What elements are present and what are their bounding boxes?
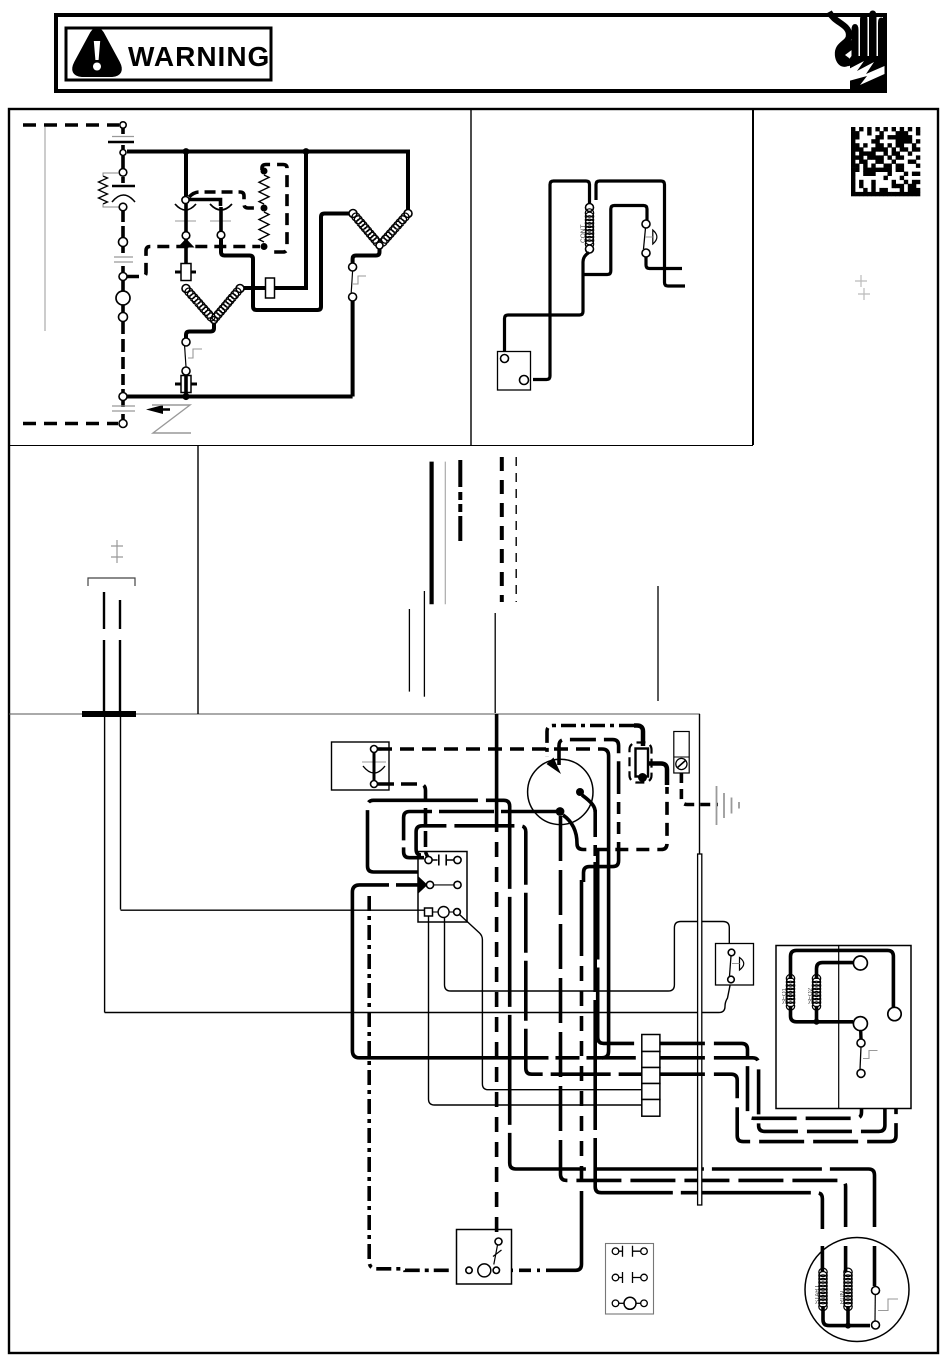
ground screw plate <box>674 732 689 774</box>
terminal below big <box>119 313 128 322</box>
wire coil2 top <box>817 963 854 979</box>
fuse F2 <box>175 271 196 274</box>
neutral bus wire <box>127 395 353 399</box>
sequencer coil1 <box>786 974 795 1010</box>
terminal heater tap <box>119 169 127 177</box>
main feed wire L1 top <box>127 152 408 210</box>
LP box blade <box>493 1245 502 1265</box>
blower motor circle <box>528 759 593 824</box>
LP switch terminal bottom <box>182 367 190 375</box>
wire A relay to compressor ovl <box>368 800 875 1227</box>
LP switch step symbol <box>188 349 202 358</box>
limit switch box <box>332 742 390 790</box>
wire coil bottom jog <box>583 253 589 272</box>
LP box terminal right <box>493 1267 499 1273</box>
fuse F1 <box>175 383 197 386</box>
limit switch gray line <box>362 761 386 763</box>
wire contactor coil feed left <box>533 181 590 380</box>
compressor overload step <box>878 1299 898 1311</box>
plug box <box>606 1244 654 1315</box>
junction dot contactor feed <box>183 148 190 155</box>
terminal L1 <box>120 122 126 128</box>
terminal below disconnect <box>120 150 126 156</box>
seq switch terminal bottom <box>857 1069 865 1077</box>
relay contact terminal 1R <box>454 856 461 863</box>
wire thin stub d <box>657 586 659 701</box>
dashed service wire segments x123 <box>121 128 125 419</box>
relay contact terminal 1L <box>425 856 432 863</box>
wire r3 compressor entry <box>821 1246 825 1272</box>
limit switch terminal top <box>371 746 378 753</box>
connector bracket <box>88 578 135 586</box>
run capacitor body <box>636 749 649 777</box>
contactor CC pole1 arc <box>175 204 196 210</box>
wire HPS stub right <box>646 257 682 269</box>
wire strip row2 to box coil2 <box>660 963 885 1131</box>
connector wire pair upper <box>104 592 120 711</box>
wire connector to relay square <box>121 909 425 911</box>
wire r2 compressor entry <box>844 1246 848 1272</box>
capacitor plates low <box>112 405 135 407</box>
wire coil1 top loop <box>791 950 894 1007</box>
thermostat terminal 1 <box>501 355 509 363</box>
connector crosses right <box>855 275 870 300</box>
wire motor V to LP switch <box>186 323 214 338</box>
dashed heater feed wire <box>127 247 260 277</box>
LP switch terminal top <box>182 338 190 346</box>
HPS dome symbol <box>653 230 657 244</box>
wire strip row1 to box switch <box>660 1043 862 1118</box>
motor terminal dot main <box>556 807 565 816</box>
HPS terminal bottom <box>642 249 650 257</box>
transformer T1 center terminal <box>376 242 383 249</box>
seq switch terminal top <box>857 1039 865 1047</box>
big terminal lug <box>116 291 130 305</box>
contactor CC pole2 arc <box>210 204 232 210</box>
sequencer box divider <box>838 946 840 1109</box>
junction terminal main feed low <box>119 393 127 401</box>
wire pole2 feed <box>189 200 221 207</box>
motor winding center junction <box>211 317 218 324</box>
section divider horizontal top <box>9 445 753 447</box>
chassis ground symbol <box>717 786 740 825</box>
heater resistor HE2 <box>259 212 269 242</box>
wire cap link to strip row1 <box>598 850 642 1044</box>
wire gray mid <box>444 462 446 605</box>
svg-text:CONT: CONT <box>580 225 587 243</box>
contactor coil terminal top <box>586 204 594 212</box>
relay coil lead <box>434 884 454 886</box>
circuit breaker bar <box>112 185 135 188</box>
warning triangle icon <box>75 30 120 75</box>
connector bar <box>82 711 136 717</box>
motor terminal dot aux <box>576 788 584 796</box>
wire HP switch down to bus <box>351 301 355 397</box>
connector wire left lower <box>104 717 106 1013</box>
transformer T1 winding right <box>379 213 409 246</box>
wire coils bottom <box>791 1006 854 1022</box>
plug contact row3 <box>612 1300 619 1307</box>
warning label box <box>66 28 271 80</box>
seq switch blade <box>860 1047 861 1070</box>
wire limit switch to relay run <box>378 747 598 751</box>
terminal bottom dashed <box>119 420 127 428</box>
junction dot fuse branch <box>303 148 310 155</box>
long wire x700 upper <box>699 714 701 854</box>
section divider vertical left <box>470 110 472 445</box>
warning banner box <box>56 15 885 91</box>
heater element dot mid <box>261 205 268 212</box>
wire dashed trunk to LPS box right <box>580 880 584 941</box>
fan switch terminal top <box>728 949 735 956</box>
terminal below breaker <box>119 203 127 211</box>
pole1 stem <box>184 204 188 232</box>
disconnect switch DS <box>112 136 134 138</box>
thermostat box <box>498 352 531 391</box>
ground screw head <box>676 758 687 769</box>
LP box terminal left <box>466 1267 472 1273</box>
fuse F3 vertical <box>266 278 275 298</box>
motor winding terminal left <box>182 285 190 293</box>
contactor pole1 terminal top <box>182 196 189 203</box>
transformer T1 winding left <box>352 213 381 246</box>
HP switch blade <box>351 271 352 293</box>
capacitor bottom terminal <box>638 773 647 782</box>
wire pole2 to transformer <box>221 214 349 311</box>
hand shock icon <box>829 11 885 92</box>
HP switch terminal bottom <box>349 293 357 301</box>
sequencer terminal mid <box>853 956 867 970</box>
capacitor right lead <box>648 764 667 786</box>
LP box big terminal <box>478 1264 491 1277</box>
motor to capacitor dashed link <box>563 815 577 844</box>
dashed contactor aux wire <box>189 192 259 208</box>
long wire x700 sleeve <box>698 854 702 1205</box>
wire fuse to switch <box>184 375 188 397</box>
motor winding terminal right <box>236 285 244 293</box>
LP switch box <box>457 1230 512 1285</box>
wire thin dashed mid <box>515 457 517 602</box>
wire contactor pole1 drop <box>184 152 188 197</box>
contactor coil terminal bottom <box>586 245 594 253</box>
compressor overload blade <box>874 1295 876 1322</box>
wire dashed trunk to LP box <box>369 896 453 1270</box>
capacitor plates service <box>114 256 133 258</box>
compressor winding start <box>819 1268 827 1311</box>
wire dashed trunk to LP box top <box>495 714 499 817</box>
wire limit switch to relay coil <box>378 784 426 852</box>
pole1 terminal bottom <box>182 232 190 240</box>
wire winding right to fuse branch <box>244 152 306 289</box>
HPS blade <box>644 228 646 249</box>
pole1 lower stem through arrow <box>184 239 188 267</box>
plug arrow up <box>178 239 195 248</box>
motor rotation dashed arrow wire <box>634 726 643 747</box>
plug contact row2 <box>612 1274 619 1281</box>
junction dot neutral <box>182 393 189 400</box>
relay terminal 3R <box>454 909 461 916</box>
relay coil terminal 2R <box>454 881 461 888</box>
motor lead2 dashed to cap area <box>559 740 619 782</box>
wire B motor to relay <box>404 812 556 858</box>
motor winding coil right <box>212 288 241 321</box>
fan switch box <box>716 944 754 986</box>
run capacitor outline <box>630 743 652 783</box>
wire relay big terminal to fan switch <box>445 918 730 992</box>
HP switch terminal top <box>349 263 357 271</box>
compressor circle <box>805 1238 909 1342</box>
wire term to switch <box>859 1031 863 1039</box>
wire strip row3 to box coil1 <box>660 1021 896 1142</box>
terminal strip TB <box>642 1035 660 1052</box>
wire dashed mid long <box>500 457 504 602</box>
pole1 gray contact line <box>175 220 196 222</box>
wire dashed mid short <box>458 460 462 541</box>
circuit breaker dome <box>112 195 135 202</box>
wire relay square down to strip <box>429 916 642 1105</box>
pole2 stem <box>219 207 223 231</box>
svg-text:START: START <box>815 1285 821 1304</box>
sequencer box <box>776 946 911 1109</box>
LP switch blade <box>185 346 186 367</box>
heater element dot bottom <box>261 243 268 250</box>
svg-text:RUN: RUN <box>840 1291 846 1304</box>
field wiring boundary gray line <box>44 127 46 331</box>
plug contact row1 <box>612 1248 619 1255</box>
HP switch step symbol <box>353 276 366 284</box>
motor arrow head <box>547 758 562 775</box>
motor aux lead <box>582 795 595 812</box>
wire coil bottom tee <box>505 271 584 351</box>
transformer T1 terminal right <box>404 210 412 218</box>
sequencer terminal bottom <box>853 1017 867 1031</box>
ground screw lead <box>681 773 718 805</box>
svg-text:SEQ1: SEQ1 <box>782 987 788 1004</box>
relay contact bars <box>432 855 454 866</box>
limit switch stem <box>373 753 376 781</box>
HPS terminal top <box>642 220 650 228</box>
seq switch step <box>863 1051 878 1059</box>
svg-text:WARNING: WARNING <box>128 41 270 72</box>
wire D capacitor run to strip <box>416 826 642 1074</box>
compressor overload terminal top <box>872 1287 880 1295</box>
connector plug crosses <box>111 540 123 563</box>
limit switch terminal bottom <box>371 781 378 788</box>
relay box BR <box>418 852 467 923</box>
thermostat terminal 2 <box>520 376 529 385</box>
legend arrow <box>146 405 163 414</box>
relay big terminal <box>438 907 449 918</box>
contactor coil CC <box>585 209 593 248</box>
limit switch arc <box>363 766 385 773</box>
transformer T1 terminal left <box>349 210 357 218</box>
fan switch dome <box>740 958 744 971</box>
fan switch terminal bottom <box>728 976 735 983</box>
relay diagonal lead <box>460 915 642 1090</box>
motor winding coil left <box>185 288 215 321</box>
relay lead 3 <box>433 911 439 913</box>
section divider vertical right <box>752 110 754 445</box>
relay terminal square <box>425 908 433 916</box>
terminal above big <box>119 273 127 281</box>
compressor overload terminal bottom <box>872 1321 880 1329</box>
sequencer terminal right low <box>888 1007 901 1020</box>
resistor crankcase heater CH <box>99 176 108 204</box>
connector wire right lower <box>120 717 122 910</box>
field wiring dashed supply line bottom <box>23 422 118 426</box>
LP box terminal top <box>495 1238 502 1245</box>
wire thin stub b <box>423 591 425 697</box>
wire trunk thick mid <box>430 462 434 605</box>
wire relay coil return run <box>352 885 635 1058</box>
wire coil top right branch <box>596 181 685 286</box>
compressor common bar <box>823 1306 870 1326</box>
heater resistor HE1 <box>259 175 269 204</box>
wire connector to LP box run <box>105 983 731 1013</box>
datamatrix barcode <box>851 127 920 196</box>
section divider horizontal mid <box>9 713 700 715</box>
svg-text:SEQ2: SEQ2 <box>808 987 814 1004</box>
wire motor main trunk r2 <box>561 816 846 1227</box>
legend Z symbol <box>152 405 191 433</box>
pole2 terminal bottom <box>217 231 225 239</box>
heater element dot top <box>261 168 268 175</box>
wire T1 center to HP switch <box>353 249 380 263</box>
wire tee to HP switch <box>583 206 647 275</box>
wire thin stub c <box>494 613 496 713</box>
field wiring dashed supply line top <box>23 123 119 127</box>
wire A compressor entry <box>873 1246 877 1286</box>
compressor winding run <box>844 1268 852 1311</box>
terminal mid service <box>119 238 128 247</box>
fan switch blade <box>730 956 732 976</box>
wire coil2 bottom tee <box>815 1006 819 1022</box>
wire thin stub a <box>408 609 410 692</box>
relay arrow <box>418 876 428 895</box>
optional heater dashed box <box>262 165 287 253</box>
relay coil terminal 2L <box>426 881 433 888</box>
wire motor aux trunk r3 <box>593 810 597 826</box>
section divider vertical mid <box>197 446 199 715</box>
pole2 gray contact line <box>210 220 231 222</box>
sequencer coil2 <box>812 974 821 1010</box>
